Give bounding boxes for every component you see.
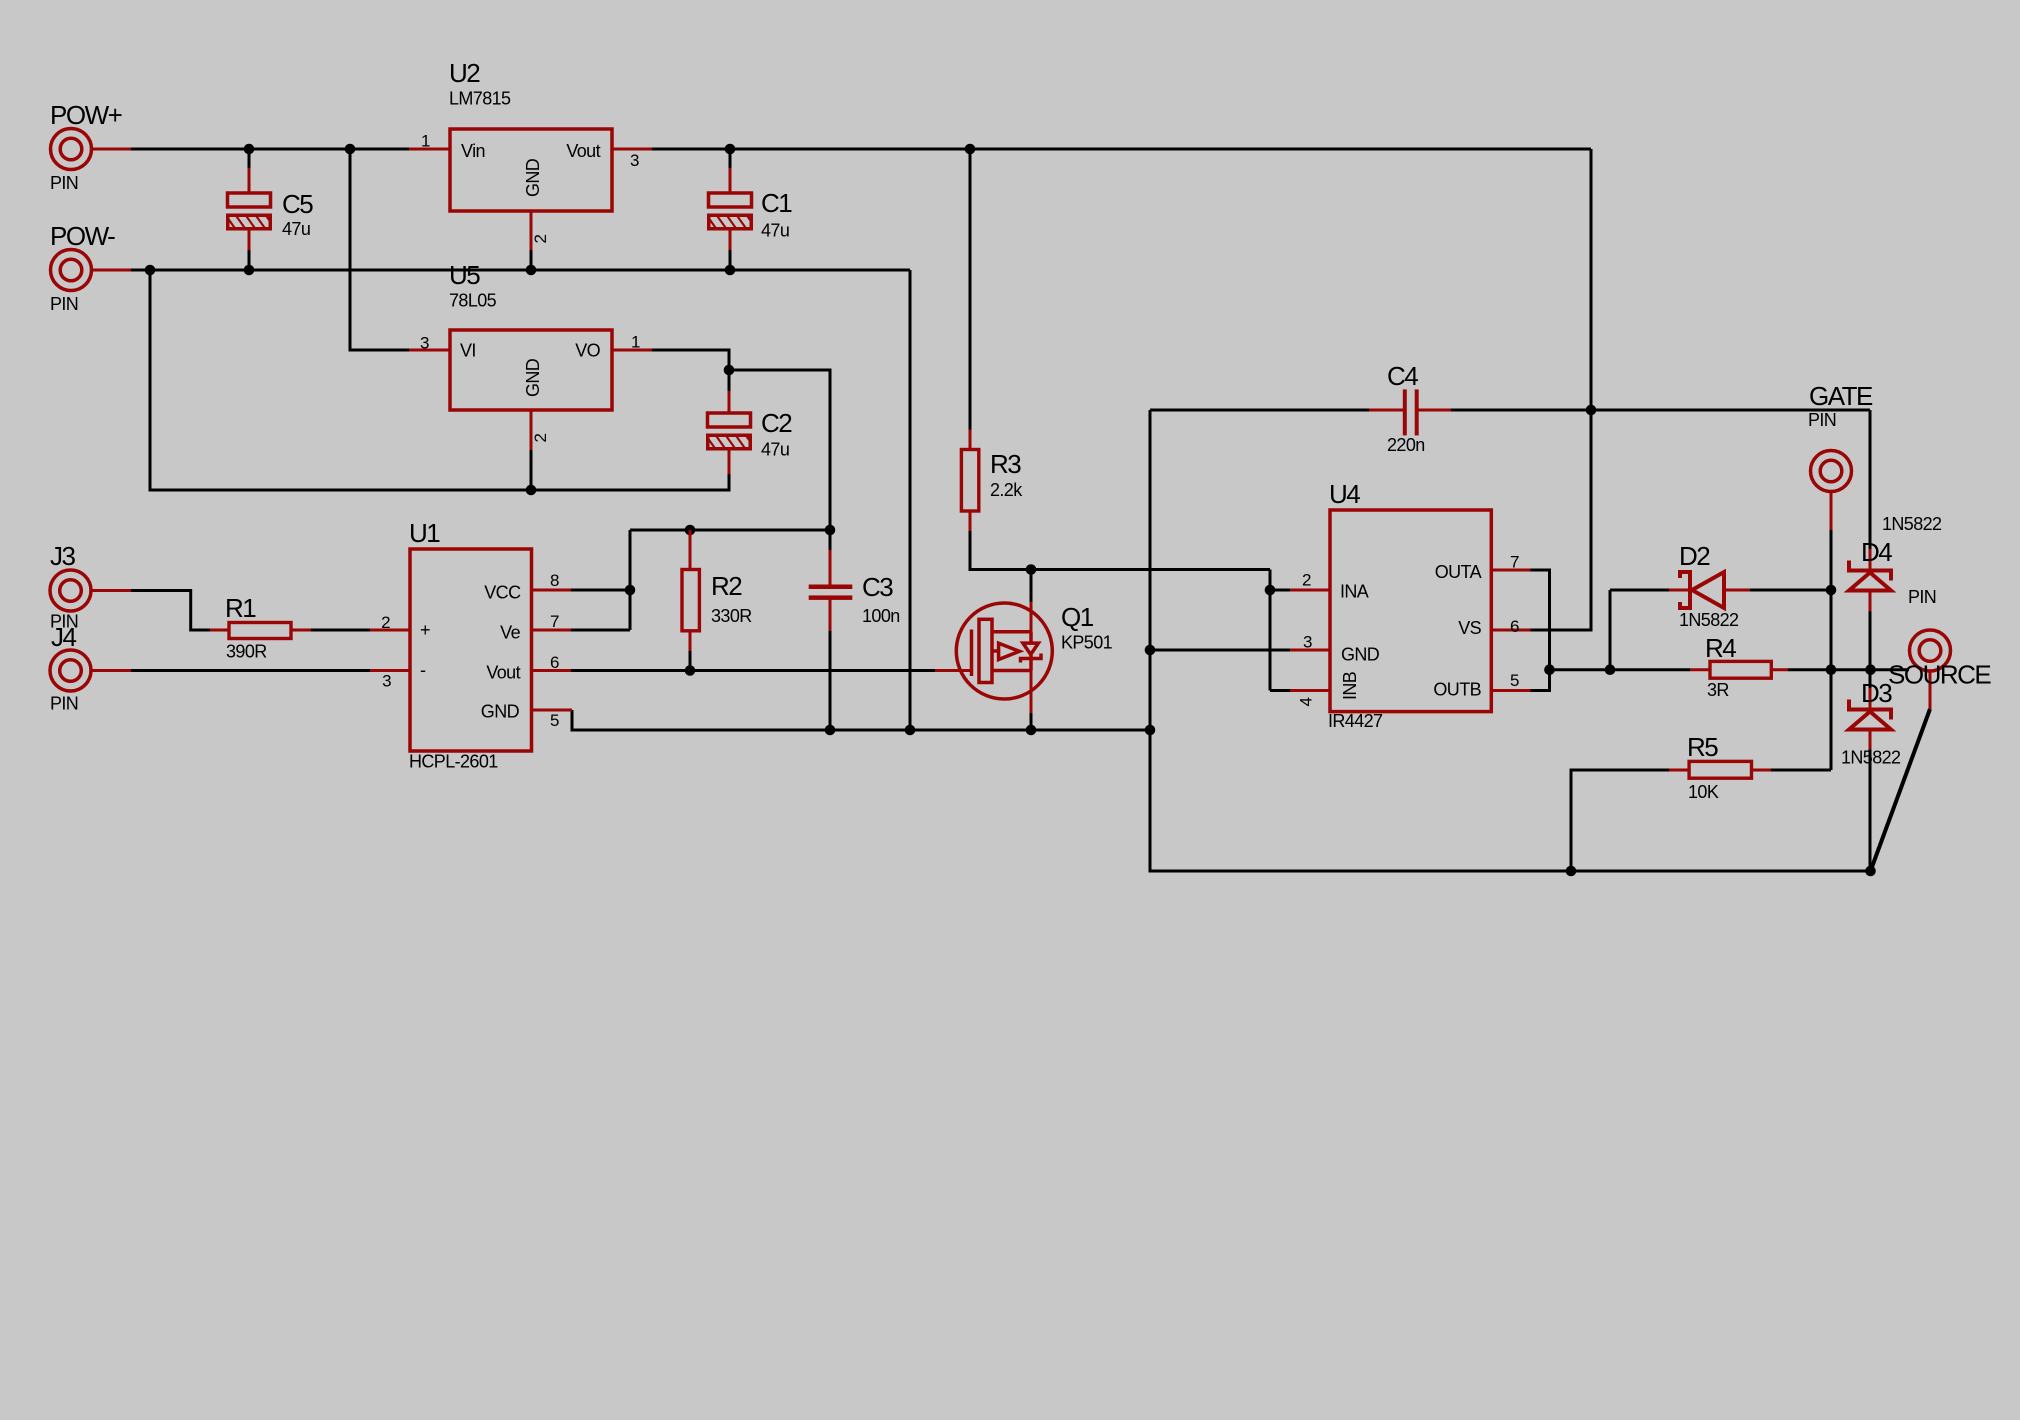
svg-text:INA: INA (1340, 582, 1369, 602)
svg-text:POW-: POW- (50, 221, 115, 251)
svg-text:C2: C2 (761, 408, 792, 438)
svg-text:C4: C4 (1387, 361, 1418, 391)
svg-text:Ve: Ve (500, 623, 520, 643)
svg-text:VI: VI (460, 341, 476, 361)
svg-text:U5: U5 (449, 260, 480, 290)
svg-text:GND: GND (523, 358, 543, 397)
svg-text:2.2k: 2.2k (990, 480, 1023, 500)
svg-text:2: 2 (381, 613, 390, 632)
svg-text:47u: 47u (761, 440, 789, 460)
svg-text:1N5822: 1N5822 (1882, 514, 1942, 534)
svg-text:3R: 3R (1707, 680, 1729, 700)
svg-text:PIN: PIN (50, 694, 78, 714)
svg-text:1N5822: 1N5822 (1841, 748, 1901, 768)
svg-text:VO: VO (575, 341, 600, 361)
svg-text:3: 3 (382, 672, 391, 691)
svg-text:R4: R4 (1705, 633, 1736, 663)
svg-text:1: 1 (421, 132, 430, 151)
svg-text:47u: 47u (761, 221, 789, 241)
svg-text:INB: INB (1340, 671, 1360, 700)
svg-text:D2: D2 (1679, 541, 1710, 571)
svg-text:220n: 220n (1387, 435, 1425, 455)
svg-text:U4: U4 (1329, 479, 1360, 509)
svg-text:GND: GND (523, 158, 543, 197)
svg-text:3: 3 (630, 151, 639, 170)
svg-text:3: 3 (1303, 633, 1312, 652)
svg-text:8: 8 (550, 571, 559, 590)
svg-text:R2: R2 (711, 571, 742, 601)
svg-text:6: 6 (1510, 617, 1519, 636)
svg-text:HCPL-2601: HCPL-2601 (409, 752, 498, 772)
svg-text:VS: VS (1458, 618, 1481, 638)
svg-text:U2: U2 (449, 58, 480, 88)
svg-text:2: 2 (531, 235, 550, 244)
svg-text:R3: R3 (990, 449, 1021, 479)
svg-text:7: 7 (1510, 553, 1519, 572)
svg-text:3: 3 (420, 334, 429, 353)
svg-text:C1: C1 (761, 188, 792, 218)
svg-text:100n: 100n (862, 606, 900, 626)
svg-text:Vout: Vout (486, 663, 520, 683)
svg-text:Q1: Q1 (1061, 602, 1094, 632)
svg-text:R5: R5 (1687, 732, 1718, 762)
svg-text:C3: C3 (862, 572, 893, 602)
svg-text:330R: 330R (711, 606, 752, 626)
svg-text:POW+: POW+ (50, 100, 122, 130)
svg-text:OUTA: OUTA (1435, 562, 1482, 582)
svg-text:GND: GND (481, 702, 520, 722)
svg-text:KP501: KP501 (1061, 633, 1113, 653)
svg-text:PIN: PIN (50, 612, 78, 632)
svg-text:+: + (420, 620, 430, 640)
svg-text:5: 5 (1510, 671, 1519, 690)
svg-text:GND: GND (1341, 645, 1380, 665)
svg-text:7: 7 (550, 612, 559, 631)
svg-text:2: 2 (531, 434, 550, 443)
svg-text:IR4427: IR4427 (1328, 711, 1383, 731)
svg-text:390R: 390R (226, 642, 267, 662)
svg-text:2: 2 (1302, 571, 1311, 590)
svg-text:6: 6 (550, 653, 559, 672)
svg-text:PIN: PIN (50, 294, 78, 314)
svg-text:OUTB: OUTB (1433, 680, 1481, 700)
svg-text:Vout: Vout (566, 141, 600, 161)
svg-text:PIN: PIN (1908, 587, 1936, 607)
svg-text:1: 1 (631, 333, 640, 352)
svg-text:Vin: Vin (461, 141, 485, 161)
svg-text:LM7815: LM7815 (449, 89, 511, 109)
svg-text:GATE: GATE (1809, 381, 1873, 411)
svg-text:SOURCE: SOURCE (1888, 660, 1991, 690)
svg-text:PIN: PIN (1808, 410, 1836, 430)
svg-text:PIN: PIN (50, 173, 78, 193)
svg-text:-: - (420, 660, 426, 680)
svg-text:5: 5 (550, 711, 559, 730)
svg-text:J3: J3 (50, 541, 76, 571)
svg-text:10K: 10K (1688, 782, 1719, 802)
svg-text:78L05: 78L05 (449, 291, 497, 311)
svg-text:R1: R1 (225, 593, 256, 623)
svg-text:VCC: VCC (484, 583, 521, 603)
svg-text:C5: C5 (282, 189, 313, 219)
svg-text:U1: U1 (409, 518, 440, 548)
svg-text:D4: D4 (1861, 537, 1892, 567)
svg-text:4: 4 (1297, 698, 1316, 707)
svg-text:47u: 47u (282, 219, 310, 239)
svg-text:1N5822: 1N5822 (1679, 610, 1739, 630)
